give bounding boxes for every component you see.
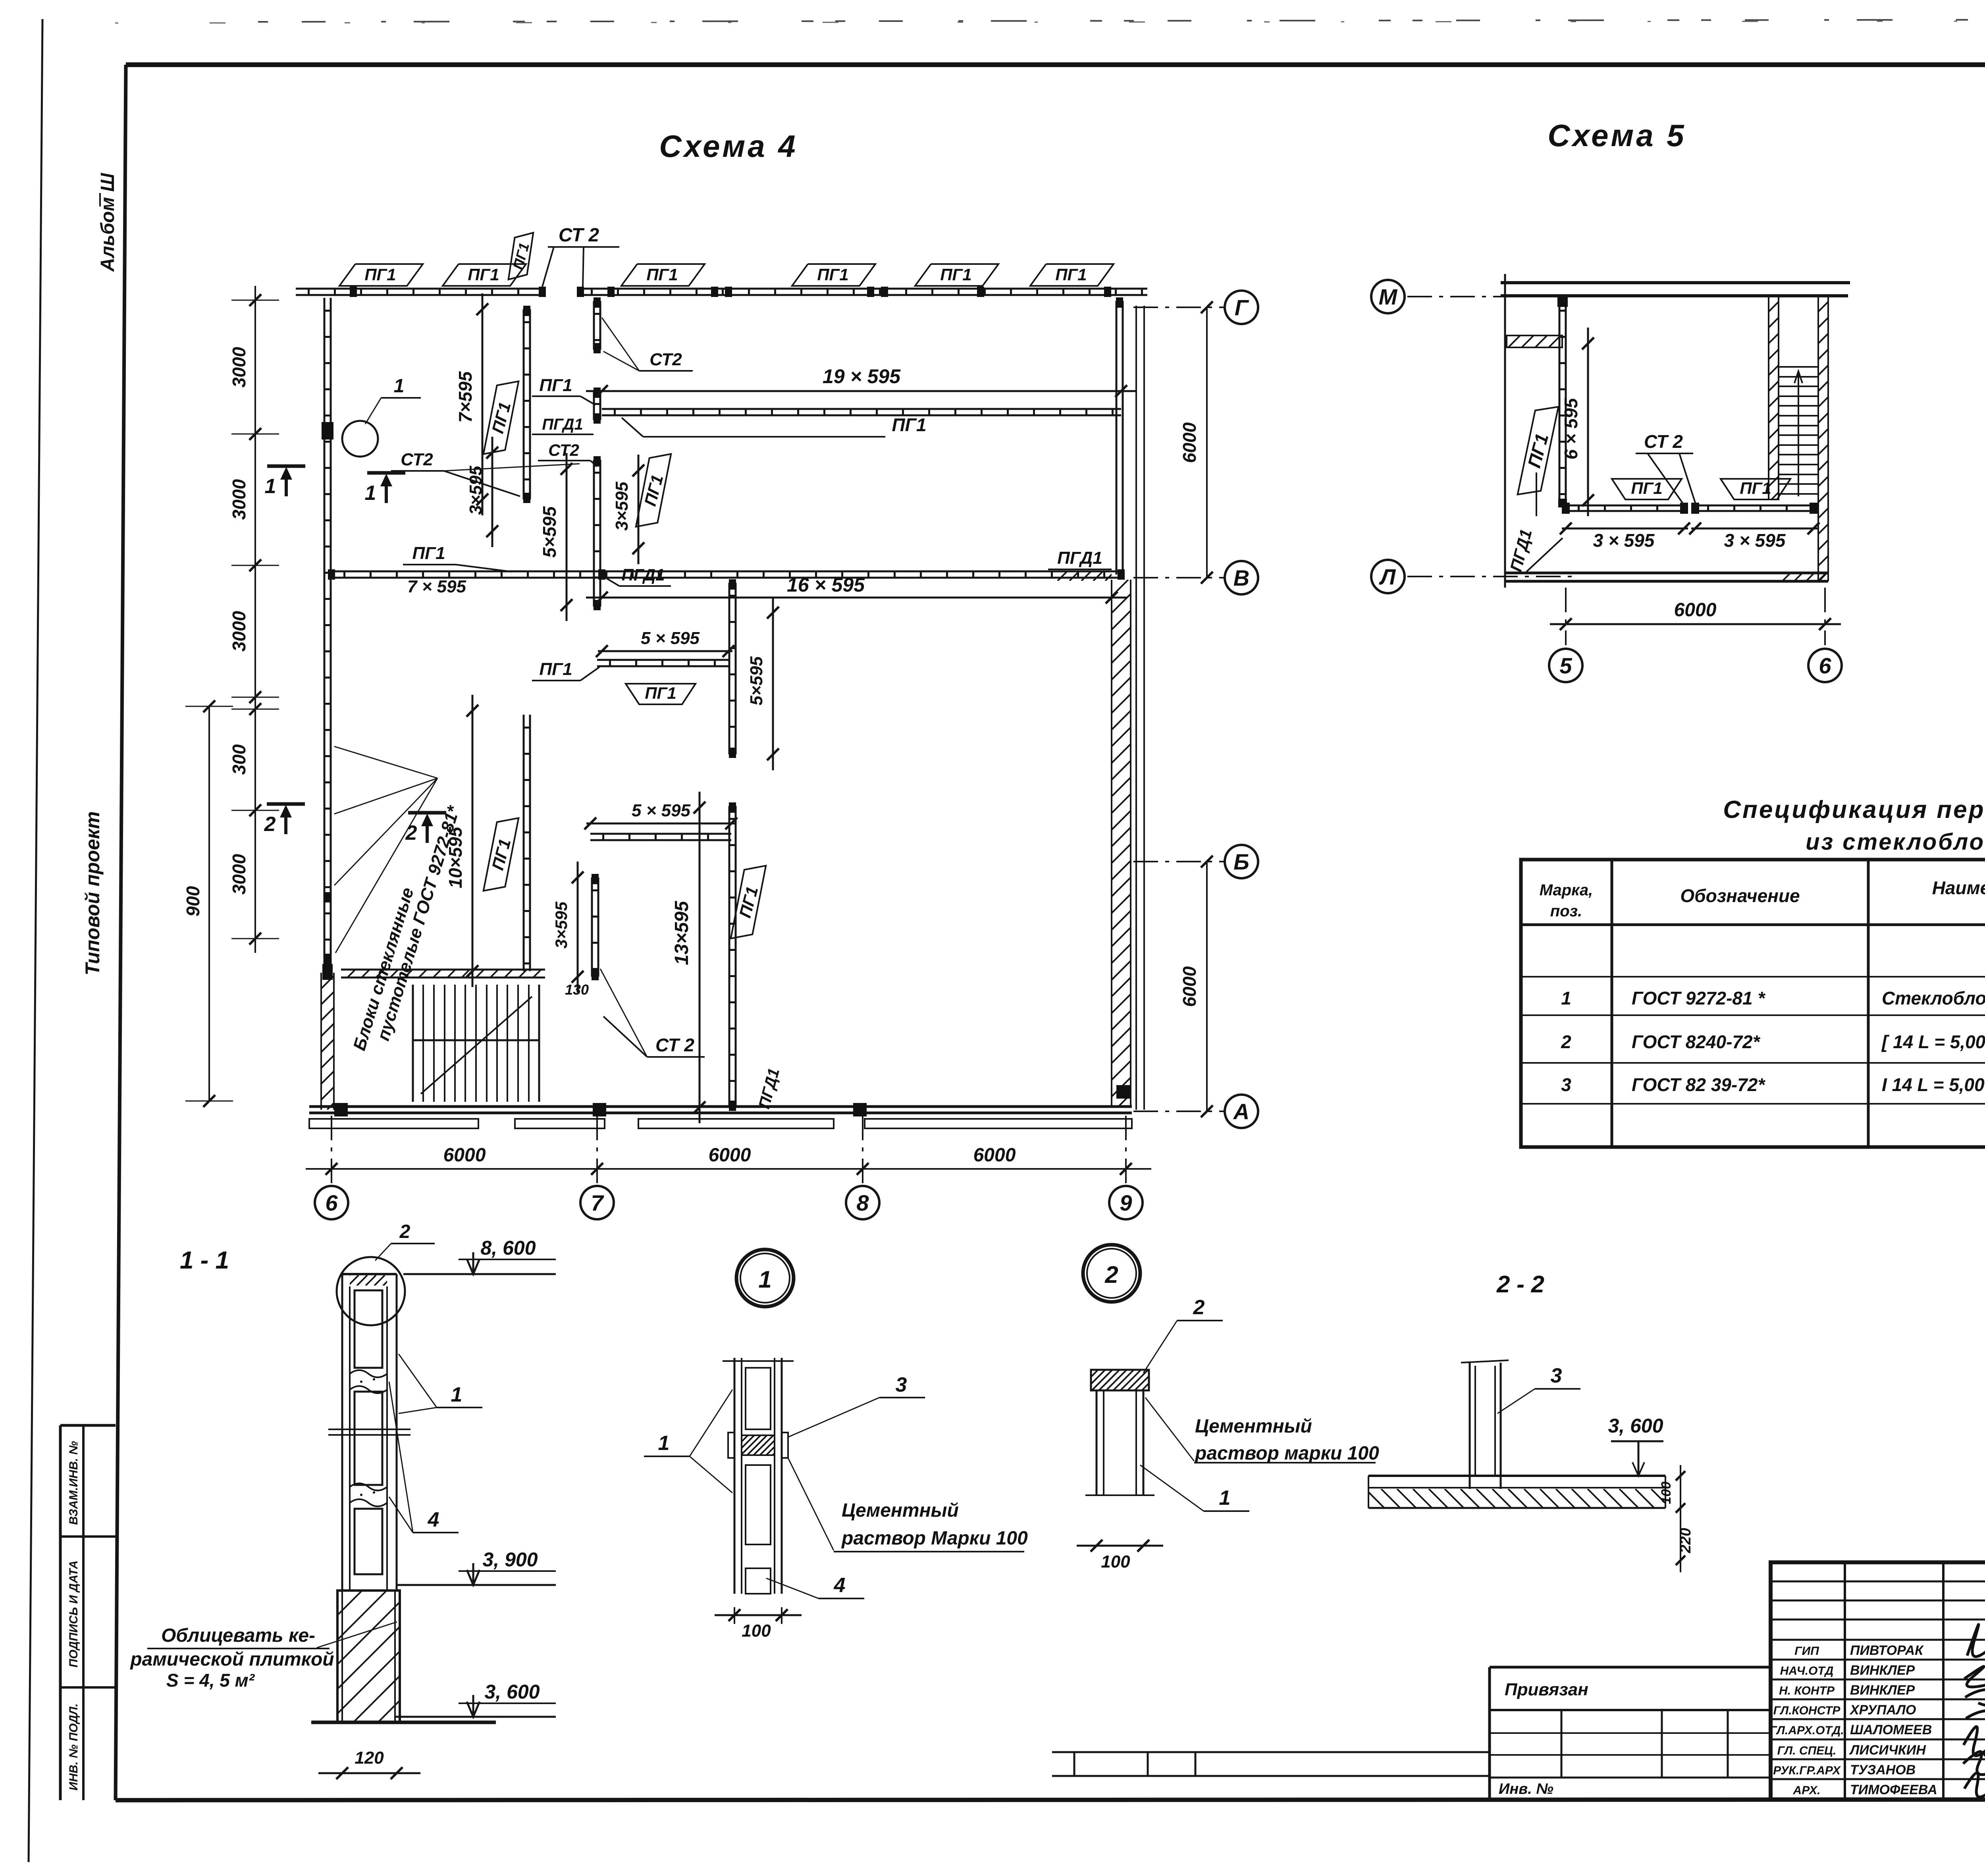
svg-text:Б: Б bbox=[1233, 849, 1249, 874]
svg-text:S = 4, 5 м²: S = 4, 5 м² bbox=[166, 1670, 255, 1691]
svg-text:130: 130 bbox=[565, 981, 589, 998]
svg-text:6000: 6000 bbox=[1179, 966, 1200, 1007]
svg-text:8: 8 bbox=[856, 1190, 869, 1215]
svg-text:1: 1 bbox=[658, 1432, 670, 1455]
svg-text:Стеклоблок БКЦ 194 × 98: Стеклоблок БКЦ 194 × 98 bbox=[1882, 988, 1985, 1008]
svg-text:Марка,: Марка, bbox=[1540, 881, 1593, 899]
svg-text:СТ 2: СТ 2 bbox=[559, 225, 599, 246]
svg-text:Спецификация перегородок: Спецификация перегородок bbox=[1723, 796, 1985, 823]
svg-text:Цементный: Цементный bbox=[842, 1500, 959, 1521]
svg-text:ПГ1: ПГ1 bbox=[646, 265, 678, 284]
svg-text:220: 220 bbox=[1677, 1528, 1694, 1553]
svg-text:ПГ1: ПГ1 bbox=[892, 415, 927, 435]
svg-text:3: 3 bbox=[896, 1373, 907, 1396]
svg-text:3: 3 bbox=[1561, 1074, 1571, 1095]
svg-text:1: 1 bbox=[758, 1266, 771, 1293]
svg-text:ГЛ.АРХ.ОТД.: ГЛ.АРХ.ОТД. bbox=[1769, 1724, 1844, 1737]
svg-text:ПГ1: ПГ1 bbox=[364, 265, 396, 284]
svg-text:СТ2: СТ2 bbox=[548, 441, 579, 459]
svg-text:2: 2 bbox=[399, 1221, 410, 1242]
svg-text:4: 4 bbox=[428, 1508, 439, 1531]
svg-text:ПГ1: ПГ1 bbox=[539, 376, 572, 395]
svg-text:ПГ1: ПГ1 bbox=[1740, 479, 1771, 497]
svg-text:3×595: 3×595 bbox=[466, 466, 486, 515]
svg-text:5 × 595: 5 × 595 bbox=[641, 629, 700, 648]
svg-text:Схема 4: Схема 4 bbox=[659, 129, 798, 164]
svg-text:5 × 595: 5 × 595 bbox=[632, 801, 691, 820]
svg-text:6: 6 bbox=[325, 1190, 338, 1215]
svg-text:6000: 6000 bbox=[443, 1145, 486, 1166]
svg-text:ГОСТ 9272-81 *: ГОСТ 9272-81 * bbox=[1632, 988, 1765, 1008]
svg-text:3 × 595: 3 × 595 bbox=[1724, 530, 1786, 551]
svg-text:поз.: поз. bbox=[1550, 902, 1582, 920]
svg-text:1: 1 bbox=[365, 482, 376, 505]
svg-text:100: 100 bbox=[1101, 1552, 1130, 1571]
svg-text:ПГ1: ПГ1 bbox=[645, 684, 676, 702]
svg-text:7 × 595: 7 × 595 bbox=[407, 577, 466, 596]
svg-text:ЛИСИЧКИН: ЛИСИЧКИН bbox=[1849, 1743, 1926, 1758]
svg-text:3, 600: 3, 600 bbox=[484, 1681, 540, 1703]
svg-text:6000: 6000 bbox=[973, 1145, 1016, 1166]
svg-text:6: 6 bbox=[1819, 653, 1831, 678]
svg-text:[ 14 L = 5,000: [ 14 L = 5,000 bbox=[1881, 1032, 1985, 1052]
svg-text:2: 2 bbox=[405, 821, 417, 844]
svg-text:Схема 5: Схема 5 bbox=[1548, 118, 1686, 153]
svg-text:3000: 3000 bbox=[229, 854, 249, 895]
svg-text:Наименование: Наименование bbox=[1932, 877, 1985, 898]
svg-text:Инв. №: Инв. № bbox=[1499, 1781, 1553, 1797]
svg-text:6000: 6000 bbox=[1674, 600, 1717, 621]
svg-text:Цементный: Цементный bbox=[1195, 1416, 1312, 1437]
svg-text:3 × 595: 3 × 595 bbox=[1593, 530, 1655, 551]
svg-text:ПГД1: ПГД1 bbox=[542, 416, 583, 433]
svg-text:СТ2: СТ2 bbox=[649, 350, 682, 369]
svg-text:ПГ1: ПГ1 bbox=[1631, 479, 1662, 497]
svg-text:В: В bbox=[1233, 565, 1249, 590]
svg-text:ПГ1: ПГ1 bbox=[1055, 265, 1087, 284]
svg-text:2: 2 bbox=[1193, 1296, 1205, 1319]
svg-text:ИНВ. № ПОДЛ.: ИНВ. № ПОДЛ. bbox=[67, 1703, 80, 1790]
svg-text:раствор марки 100: раствор марки 100 bbox=[1194, 1443, 1379, 1464]
svg-text:300: 300 bbox=[229, 744, 249, 775]
svg-text:3000: 3000 bbox=[229, 611, 249, 652]
svg-text:3000: 3000 bbox=[229, 479, 249, 520]
svg-text:2: 2 bbox=[1561, 1032, 1571, 1052]
svg-text:ГИП: ГИП bbox=[1794, 1645, 1819, 1658]
svg-text:1: 1 bbox=[1219, 1487, 1231, 1510]
svg-text:СТ2: СТ2 bbox=[401, 450, 433, 469]
svg-text:ГОСТ 82 39-72*: ГОСТ 82 39-72* bbox=[1632, 1074, 1765, 1095]
svg-text:ГЛ. СПЕЦ.: ГЛ. СПЕЦ. bbox=[1777, 1744, 1837, 1757]
svg-text:4: 4 bbox=[834, 1574, 846, 1597]
svg-text:Альбом Ш: Альбом Ш bbox=[97, 173, 118, 272]
svg-text:3, 600: 3, 600 bbox=[1608, 1415, 1663, 1437]
svg-text:8, 600: 8, 600 bbox=[480, 1237, 536, 1259]
svg-text:2: 2 bbox=[264, 813, 276, 836]
svg-text:1 - 1: 1 - 1 bbox=[180, 1247, 229, 1274]
svg-text:ТИМОФЕЕВА: ТИМОФЕЕВА bbox=[1850, 1782, 1937, 1797]
svg-text:ГЛ.КОНСТР: ГЛ.КОНСТР bbox=[1773, 1704, 1841, 1717]
svg-text:Типовой проект: Типовой проект bbox=[81, 811, 104, 975]
svg-text:ПГ1: ПГ1 bbox=[539, 659, 572, 679]
svg-text:ВИНКЛЕР: ВИНКЛЕР bbox=[1850, 1663, 1915, 1678]
svg-text:ПГ1: ПГ1 bbox=[817, 265, 848, 284]
svg-text:ПИВТОРАК: ПИВТОРАК bbox=[1850, 1643, 1924, 1658]
svg-text:2 - 2: 2 - 2 bbox=[1496, 1271, 1544, 1298]
svg-text:ШАЛОМЕЕВ: ШАЛОМЕЕВ bbox=[1850, 1722, 1932, 1737]
svg-text:I 14 L = 5,000: I 14 L = 5,000 bbox=[1882, 1074, 1985, 1095]
svg-text:5: 5 bbox=[1559, 653, 1572, 678]
svg-text:ТУЗАНОВ: ТУЗАНОВ bbox=[1850, 1762, 1916, 1778]
svg-text:9: 9 bbox=[1120, 1190, 1132, 1215]
svg-text:1: 1 bbox=[265, 475, 276, 498]
svg-text:7×595: 7×595 bbox=[455, 371, 476, 423]
svg-text:100: 100 bbox=[1659, 1482, 1674, 1504]
svg-text:Г: Г bbox=[1235, 295, 1249, 320]
svg-text:6 × 595: 6 × 595 bbox=[1561, 397, 1581, 459]
svg-text:ПГ1: ПГ1 bbox=[412, 544, 445, 563]
svg-text:3×595: 3×595 bbox=[612, 482, 632, 531]
svg-text:3000: 3000 bbox=[229, 347, 249, 388]
svg-text:900: 900 bbox=[183, 886, 203, 916]
svg-text:ПГД1: ПГД1 bbox=[1057, 548, 1102, 568]
svg-text:1: 1 bbox=[394, 376, 405, 397]
svg-text:2: 2 bbox=[1104, 1261, 1118, 1288]
svg-text:3: 3 bbox=[1551, 1364, 1562, 1387]
svg-text:ПГ1: ПГ1 bbox=[940, 265, 971, 284]
svg-text:рамической плиткой: рамической плиткой bbox=[129, 1649, 334, 1670]
svg-text:Л: Л bbox=[1379, 564, 1396, 589]
svg-text:13×595: 13×595 bbox=[671, 900, 692, 965]
svg-text:Облицевать ке-: Облицевать ке- bbox=[161, 1625, 315, 1646]
svg-text:Обозначение: Обозначение bbox=[1680, 885, 1800, 906]
svg-text:ПГД1: ПГД1 bbox=[622, 565, 665, 584]
svg-text:ПОДПИСЬ И ДАТА: ПОДПИСЬ И ДАТА bbox=[67, 1560, 80, 1668]
svg-text:6000: 6000 bbox=[709, 1145, 751, 1166]
svg-text:СТ 2: СТ 2 bbox=[655, 1035, 694, 1055]
svg-text:ПГ1: ПГ1 bbox=[468, 265, 499, 284]
svg-text:5×595: 5×595 bbox=[539, 506, 560, 558]
svg-text:СТ 2: СТ 2 bbox=[1644, 431, 1683, 452]
svg-text:16 × 595: 16 × 595 bbox=[787, 574, 865, 596]
svg-text:120: 120 bbox=[355, 1748, 384, 1768]
svg-text:6000: 6000 bbox=[1179, 422, 1200, 463]
svg-text:Привязан: Привязан bbox=[1505, 1680, 1588, 1699]
svg-text:РУК.ГР.АРХ: РУК.ГР.АРХ bbox=[1773, 1764, 1841, 1777]
svg-text:ВЗАМ.ИНВ. №: ВЗАМ.ИНВ. № bbox=[67, 1441, 80, 1525]
svg-text:раствор Марки 100: раствор Марки 100 bbox=[841, 1528, 1028, 1549]
svg-text:ГОСТ 8240-72*: ГОСТ 8240-72* bbox=[1632, 1032, 1761, 1052]
svg-text:5×595: 5×595 bbox=[747, 656, 766, 706]
svg-text:3, 900: 3, 900 bbox=[482, 1548, 538, 1571]
svg-text:АРХ.: АРХ. bbox=[1793, 1784, 1821, 1797]
svg-text:1: 1 bbox=[1561, 988, 1571, 1008]
svg-text:ВИНКЛЕР: ВИНКЛЕР bbox=[1850, 1683, 1915, 1698]
svg-text:3×595: 3×595 bbox=[552, 901, 570, 949]
svg-text:100: 100 bbox=[742, 1621, 771, 1641]
svg-text:А: А bbox=[1233, 1099, 1249, 1124]
svg-text:из стеклоблоков: из стеклоблоков bbox=[1806, 829, 1985, 855]
svg-text:19 × 595: 19 × 595 bbox=[823, 365, 901, 388]
svg-text:М: М bbox=[1379, 284, 1398, 309]
svg-text:НАЧ.ОТД: НАЧ.ОТД bbox=[1780, 1664, 1834, 1677]
svg-text:7: 7 bbox=[591, 1190, 604, 1215]
svg-text:1: 1 bbox=[451, 1383, 463, 1406]
svg-text:ХРУПАЛО: ХРУПАЛО bbox=[1849, 1702, 1916, 1718]
svg-text:Н. КОНТР: Н. КОНТР bbox=[1779, 1684, 1835, 1697]
